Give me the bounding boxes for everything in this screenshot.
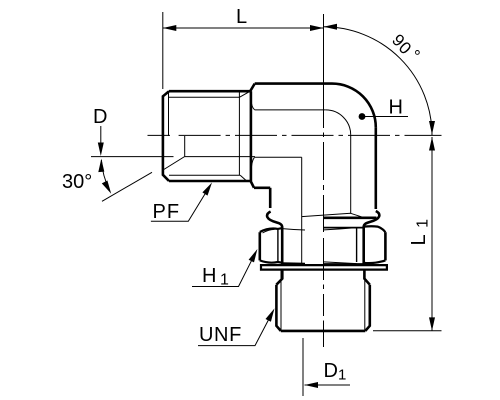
dimension D1 arrowhead (305, 382, 319, 388)
30 degree arc arrowheads (98, 159, 111, 194)
svg-text:30°: 30° (62, 171, 92, 193)
locknut facet vertical right (356, 228, 358, 262)
locknut facet vertical left (277, 229, 279, 262)
thread runout diagonals (239, 91, 250, 181)
locknut right edge (384, 232, 387, 260)
svg-text:H: H (389, 97, 403, 119)
centerline vertical axis (323, 14, 325, 347)
leg left edge (269, 188, 272, 208)
elbow body hex left face (250, 84, 255, 188)
body hex facet arcs left (251, 99, 255, 174)
UNF thread minor lines (281, 270, 365, 331)
male thread PF outline (163, 91, 251, 181)
body bottom edge left (254, 187, 270, 190)
leg right flare neck (364, 211, 380, 265)
dimension L1 arrowheads (429, 137, 435, 331)
dimension L extension line (162, 12, 164, 89)
svg-text:L: L (236, 6, 247, 28)
UNF stud neck (276, 270, 369, 285)
locknut top chamfer arc right (364, 226, 386, 232)
locknut bottom chamfer arc right (364, 260, 386, 263)
locknut top edge middle-right (324, 227, 364, 229)
30 degree reference diagonal (102, 172, 152, 201)
thread minor diameter lines (169, 97, 241, 175)
label UNF leader (198, 320, 268, 346)
90 degree arc arrowheads (324, 24, 436, 135)
locknut top chamfer arc left (260, 228, 282, 232)
body facet line top (255, 109, 326, 111)
thread chamfer inner vertical (168, 91, 170, 136)
locknut bottom edge middle (282, 263, 364, 265)
internal cone edge (163, 136, 185, 170)
leg left flare neck (267, 212, 282, 265)
body right edge (374, 127, 377, 209)
UNF thread bottom edge (281, 330, 366, 333)
thread end vertical (238, 91, 240, 175)
svg-text:PF: PF (153, 201, 181, 223)
locknut H1 left edge (258, 232, 261, 260)
dimension L line (163, 27, 324, 29)
locknut top inner arc left (263, 229, 275, 233)
label H1 leader (192, 261, 252, 287)
label PF leader (151, 193, 206, 222)
svg-text:D: D (93, 106, 107, 128)
body outer corner arc (332, 84, 376, 128)
washer (261, 265, 387, 270)
svg-text:UNF: UNF (199, 324, 242, 346)
body top edge (255, 82, 332, 85)
svg-text:L1: L1 (408, 212, 432, 245)
locknut bottom chamfer arc left (260, 260, 282, 262)
locknut bottom arcs middle (282, 262, 356, 264)
dimension D1 extension line (302, 338, 304, 396)
30 degree angular arc (101, 160, 109, 190)
svg-text:H1: H1 (202, 265, 229, 289)
leg hex bottom arcs (302, 213, 363, 217)
dimension L arrowheads (163, 25, 324, 31)
locknut top arcs middle (282, 228, 356, 230)
leg hex bottom edge (324, 217, 377, 220)
90 degree arc (324, 27, 433, 136)
dimension L1 bottom extension line (373, 330, 442, 332)
dimension L1 line (431, 137, 433, 331)
inner corner vertical (301, 157, 303, 265)
label H leader with dot (362, 116, 408, 118)
svg-text:D1: D1 (324, 360, 347, 384)
dimension D arrow (100, 126, 102, 145)
dimension D1 line (305, 384, 351, 386)
body inner corner arc (326, 110, 351, 135)
body facet line bottom / inner corner (255, 156, 302, 158)
leg facet vertical right (350, 135, 352, 213)
centerline horizontal axis (148, 134, 442, 136)
UNF thread outer (276, 285, 369, 331)
D reference line (91, 156, 255, 158)
